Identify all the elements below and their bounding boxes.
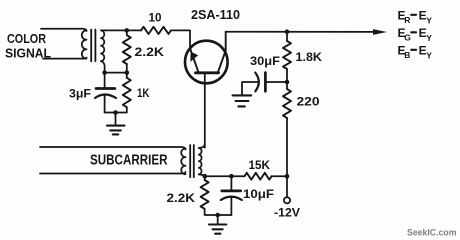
svg-text:SUBCARRIER: SUBCARRIER <box>90 152 168 168</box>
svg-text:B: B <box>404 50 410 60</box>
svg-text:1.8K: 1.8K <box>296 50 323 64</box>
svg-text:2.2K: 2.2K <box>135 45 165 59</box>
svg-text:SeekIC.com: SeekIC.com <box>407 227 457 238</box>
svg-text:3μF: 3μF <box>69 86 91 100</box>
svg-text:1K: 1K <box>137 86 150 100</box>
svg-text:G: G <box>404 32 411 42</box>
svg-text:10μF: 10μF <box>243 187 274 201</box>
svg-text:2SA-110: 2SA-110 <box>191 8 240 22</box>
svg-text:Y: Y <box>426 15 432 25</box>
svg-text:Y: Y <box>426 33 432 43</box>
svg-text:-12V: -12V <box>274 205 300 219</box>
svg-text:COLOR: COLOR <box>7 31 46 46</box>
svg-text:SIGNAL: SIGNAL <box>5 46 51 61</box>
svg-text:10: 10 <box>149 10 162 24</box>
svg-text:R: R <box>404 15 410 25</box>
svg-text:15K: 15K <box>249 158 271 172</box>
svg-text:30μF: 30μF <box>250 54 280 68</box>
svg-text:2.2K: 2.2K <box>167 191 196 205</box>
svg-text:Y: Y <box>426 50 432 60</box>
svg-text:220: 220 <box>297 95 320 109</box>
